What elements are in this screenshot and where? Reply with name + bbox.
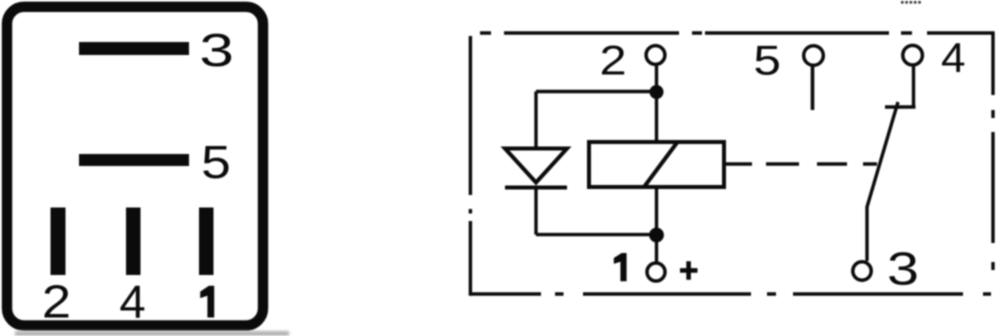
pin 1 blade xyxy=(199,208,214,276)
relay coil K1 xyxy=(589,142,724,187)
pin 4 blade xyxy=(126,208,141,276)
wire: bottom branch to node B xyxy=(536,233,657,236)
svg-text:3: 3 xyxy=(199,25,234,76)
soft shadow under connector body xyxy=(15,331,289,336)
coil actuator stub xyxy=(724,162,752,166)
actuator dashed link xyxy=(766,162,877,166)
wire: terminal 4 down to fixed contact xyxy=(912,66,915,107)
schematic enclosure dash-dot border: right side xyxy=(991,33,994,270)
svg-text:4: 4 xyxy=(941,35,966,82)
svg-text:5: 5 xyxy=(753,36,781,84)
terminal 5 stub wire xyxy=(811,67,815,111)
plus polarity mark xyxy=(680,261,698,280)
wire: diode cathode down xyxy=(534,189,537,235)
pin 3 pad (top horizontal bar) xyxy=(79,42,189,55)
wire: coil bottom to node B xyxy=(655,187,658,235)
wire: node A down to coil top xyxy=(655,92,658,142)
terminal 5 circle xyxy=(804,46,824,66)
wire: diode branch down to diode anode xyxy=(534,92,537,149)
pin 1 label xyxy=(200,286,214,318)
wire: node B to terminal 1 xyxy=(655,235,658,263)
wire: terminal 2 to node A xyxy=(655,66,658,92)
terminal 4 circle xyxy=(903,45,923,65)
pin 5 pad (middle horizontal bar) xyxy=(79,154,189,166)
node B junction dot xyxy=(649,228,664,243)
pin 2 blade xyxy=(51,208,66,276)
terminal 1 label xyxy=(614,253,627,281)
svg-text:2: 2 xyxy=(42,276,71,327)
fixed contact tick xyxy=(885,105,916,108)
terminal 1 circle xyxy=(647,263,665,281)
schematic enclosure dash-dot border: top side xyxy=(469,33,995,296)
svg-text:5: 5 xyxy=(201,136,231,188)
relay connector body outline xyxy=(7,7,263,326)
switch arm xyxy=(867,102,898,261)
svg-text:4: 4 xyxy=(119,276,145,327)
terminal 2 circle xyxy=(646,46,665,65)
schematic enclosure dash-dot border: left side xyxy=(469,36,472,296)
terminal 3 circle xyxy=(853,262,871,280)
stray dotted tick marks above border xyxy=(901,1,921,4)
node A junction dot xyxy=(650,85,664,99)
svg-text:2: 2 xyxy=(599,36,626,83)
diode D1 (anode top, cathode bar below) xyxy=(505,149,567,188)
schematic enclosure dash-dot border: bottom side xyxy=(469,292,991,295)
svg-text:3: 3 xyxy=(887,244,919,295)
wire: node A left to diode branch xyxy=(536,90,657,93)
